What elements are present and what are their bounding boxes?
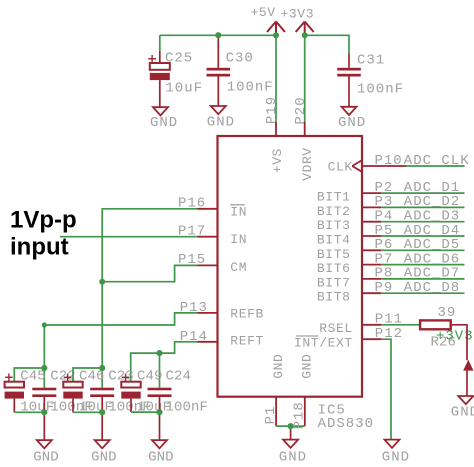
pin BIT4 stub xyxy=(362,235,381,237)
wire pair2 top xyxy=(73,368,102,382)
ground IC5 xyxy=(279,426,307,465)
wire P15 net (CM) xyxy=(102,265,197,281)
pin BIT7 stub xyxy=(362,278,381,280)
wire P20 net (+3V3 to IC pin) xyxy=(304,35,306,121)
pin P19 stub (+VS) xyxy=(275,122,277,136)
wire P11 net to resistor xyxy=(381,324,420,326)
ground C31 xyxy=(338,107,366,131)
SECTION: right nets xyxy=(362,153,474,466)
svg-text:BIT8: BIT8 xyxy=(317,290,351,305)
node pair1 bottom junction xyxy=(41,409,47,415)
svg-text:P14: P14 xyxy=(180,329,208,345)
ground pair3 xyxy=(148,412,174,465)
svg-text:GND: GND xyxy=(279,450,307,466)
pin BIT8 stub xyxy=(362,292,381,294)
pin P20 stub (VDRV) xyxy=(304,122,306,136)
svg-text:P18: P18 xyxy=(292,401,308,429)
ground pair1 xyxy=(33,412,59,465)
svg-text:GND: GND xyxy=(451,405,474,421)
svg-text:100nF: 100nF xyxy=(357,82,404,98)
pin IN(1) stub xyxy=(198,208,218,210)
svg-text:C30: C30 xyxy=(226,51,254,67)
node pair1 bottom junction (overlay) xyxy=(41,409,47,415)
svg-text:+5V: +5V xyxy=(251,5,276,20)
wire power to ground (bottom right) xyxy=(466,371,468,396)
wire pair1 top xyxy=(14,368,44,388)
SECTION: top power rail xyxy=(148,5,404,131)
svg-text:100nF: 100nF xyxy=(166,400,209,416)
svg-text:C31: C31 xyxy=(357,53,385,69)
SECTION: capacitor bank xyxy=(5,365,208,465)
svg-text:+3V3: +3V3 xyxy=(281,7,315,22)
svg-text:BIT4: BIT4 xyxy=(317,233,351,248)
pin BIT2 stub xyxy=(362,206,381,208)
svg-text:INT/EXT: INT/EXT xyxy=(294,336,353,351)
svg-text:BIT5: BIT5 xyxy=(317,247,351,262)
pin REFB stub xyxy=(198,312,218,314)
svg-text:1Vp-p: 1Vp-p xyxy=(10,207,77,234)
svg-text:39: 39 xyxy=(438,305,457,321)
node pair3 bottom junction (overlay) xyxy=(157,409,163,415)
wire P17 net (input to IN) xyxy=(60,236,198,238)
svg-text:GND: GND xyxy=(271,354,286,379)
wire P19 net (+5V to IC pin) xyxy=(275,35,277,121)
node P14 junction (overlay) xyxy=(157,350,163,356)
ground bottom right xyxy=(451,396,474,421)
wire pair3 bottom xyxy=(131,411,160,413)
pin BIT3 stub xyxy=(362,221,381,223)
wire P14 net (REFT) xyxy=(131,342,198,382)
node P13 corner junction xyxy=(42,322,47,327)
wire ADC_D1 net xyxy=(381,192,465,194)
node C30 junction (overlay) xyxy=(215,32,221,38)
wire P13 net (REFB) xyxy=(44,313,197,368)
SECTION: IC xyxy=(198,122,375,466)
svg-text:GND: GND xyxy=(33,449,59,465)
ground P12 xyxy=(382,440,410,466)
svg-text:C25: C25 xyxy=(165,51,193,67)
capacitor C23 xyxy=(90,368,151,415)
svg-text:ADS830: ADS830 xyxy=(318,416,374,432)
wire +3V3 rail xyxy=(305,35,349,53)
wire ADC_D6 net xyxy=(381,264,465,266)
node pair1 top junction xyxy=(41,365,47,371)
svg-text:ADC_D8: ADC_D8 xyxy=(404,280,460,296)
wire CM node down to cap bank xyxy=(101,282,103,368)
node pair2 top junction (overlay) xyxy=(99,365,105,371)
wire joining P1/P18 to ground xyxy=(276,425,305,427)
svg-text:BIT7: BIT7 xyxy=(317,275,351,290)
wire ADC_D8 net xyxy=(381,292,465,294)
resistor R26 xyxy=(420,305,456,350)
capacitor C30 xyxy=(207,35,274,106)
node pair2 top junction xyxy=(99,365,105,371)
svg-text:P13: P13 xyxy=(180,300,208,316)
capacitor C24 xyxy=(148,368,209,415)
pin BIT1 stub xyxy=(362,192,381,194)
ground pair2 xyxy=(91,412,117,465)
wire ADC_D4 net xyxy=(381,235,465,237)
capacitor C31 xyxy=(337,53,404,107)
capacitor C45 xyxy=(5,368,55,415)
power +3V3 (bottom right) xyxy=(463,360,473,371)
svg-text:P19: P19 xyxy=(264,96,280,124)
ground C25 xyxy=(150,107,178,131)
svg-text:P1: P1 xyxy=(263,406,279,425)
wire ADC_CLK net xyxy=(406,165,465,167)
wire +5V rail xyxy=(160,34,276,36)
svg-text:P15: P15 xyxy=(178,252,206,268)
svg-text:10uF: 10uF xyxy=(165,81,203,97)
node +3V3 junction xyxy=(302,32,308,38)
svg-text:P20: P20 xyxy=(293,96,309,124)
pin CLK clock arrow xyxy=(352,160,362,172)
pin INT/EXT stub xyxy=(362,338,381,340)
svg-text:GND: GND xyxy=(148,449,174,465)
pin P18 stub (bottom GND) xyxy=(304,397,306,426)
svg-text:ADC_CLK: ADC_CLK xyxy=(404,153,470,169)
wire P16 net xyxy=(102,209,197,282)
wire ADC_D3 net xyxy=(381,221,465,223)
svg-text:C24: C24 xyxy=(166,368,192,384)
node pair2 bottom junction xyxy=(99,409,105,415)
svg-text:IN: IN xyxy=(230,204,247,219)
wire C23 top lead xyxy=(101,368,103,388)
svg-text:GND: GND xyxy=(207,115,235,131)
svg-text:P12: P12 xyxy=(375,326,403,342)
wire ADC_D2 net xyxy=(381,206,465,208)
op-amp IC5 ADS830 body xyxy=(218,136,363,397)
wire ADC_D7 net xyxy=(381,278,465,280)
node P1/P18 junction (overlay) xyxy=(288,423,294,429)
svg-text:GND: GND xyxy=(150,115,178,131)
svg-text:BIT2: BIT2 xyxy=(317,204,351,219)
capacitor C46 xyxy=(63,368,113,415)
svg-text:input: input xyxy=(10,234,69,261)
node +5V junction xyxy=(273,32,279,38)
svg-text:P9: P9 xyxy=(375,280,394,296)
svg-text:RSEL: RSEL xyxy=(319,321,353,336)
svg-text:GND: GND xyxy=(91,449,117,465)
svg-text:P10: P10 xyxy=(375,153,403,169)
svg-text:C45: C45 xyxy=(20,368,46,384)
svg-text:REFB: REFB xyxy=(230,306,264,321)
wire pair2 bottom xyxy=(73,411,102,413)
svg-text:BIT1: BIT1 xyxy=(317,190,351,205)
svg-text:P16: P16 xyxy=(178,196,206,212)
node CM junction xyxy=(99,279,105,285)
capacitor C25 xyxy=(148,51,203,108)
pin CM stub xyxy=(198,264,218,266)
ground C30 xyxy=(207,106,235,131)
wire resistor to +3V3 power xyxy=(451,325,467,361)
pin P1 stub (bottom GND) xyxy=(275,397,277,426)
SECTION: left input xyxy=(10,196,208,388)
svg-text:VDRV: VDRV xyxy=(300,147,315,181)
node pair3 bottom junction xyxy=(157,409,163,415)
svg-text:C49: C49 xyxy=(137,368,163,384)
svg-text:BIT3: BIT3 xyxy=(317,218,351,233)
node P14 junction xyxy=(157,350,163,356)
capacitor C22 xyxy=(32,368,93,415)
node P1/P18 junction xyxy=(288,423,294,429)
pin BIT6 stub xyxy=(362,264,381,266)
svg-text:GND: GND xyxy=(338,115,366,131)
capacitor C49 xyxy=(121,368,171,415)
wire C25 lead top xyxy=(159,35,161,51)
node pair2 bottom junction (overlay) xyxy=(99,409,105,415)
svg-text:+3V3: +3V3 xyxy=(436,329,474,345)
wire ADC_D5 net xyxy=(381,249,465,251)
wire C24 top lead xyxy=(159,353,161,388)
svg-text:REFT: REFT xyxy=(230,334,264,349)
node pair1 top junction (overlay) xyxy=(41,365,47,371)
pin REFT stub xyxy=(198,341,218,343)
svg-text:P17: P17 xyxy=(178,223,206,239)
power +5V xyxy=(267,22,285,36)
node C30 junction xyxy=(215,32,221,38)
svg-text:IN: IN xyxy=(230,232,247,247)
svg-text:BIT6: BIT6 xyxy=(317,261,351,276)
svg-text:C46: C46 xyxy=(79,368,105,384)
power +3V3 xyxy=(296,22,314,36)
svg-text:CM: CM xyxy=(230,260,247,275)
pin BIT5 stub xyxy=(362,249,381,251)
svg-text:GND: GND xyxy=(300,354,315,379)
pin RSEL stub xyxy=(362,324,381,326)
svg-text:100nF: 100nF xyxy=(227,80,274,96)
svg-text:+VS: +VS xyxy=(270,148,285,173)
svg-text:GND: GND xyxy=(382,450,410,466)
svg-text:CLK: CLK xyxy=(328,160,353,175)
wire pair1 bottom xyxy=(14,411,44,413)
pin CLK stub xyxy=(362,165,406,167)
wire P12 net to ground xyxy=(381,339,391,439)
pin IN(2) stub xyxy=(198,236,218,238)
